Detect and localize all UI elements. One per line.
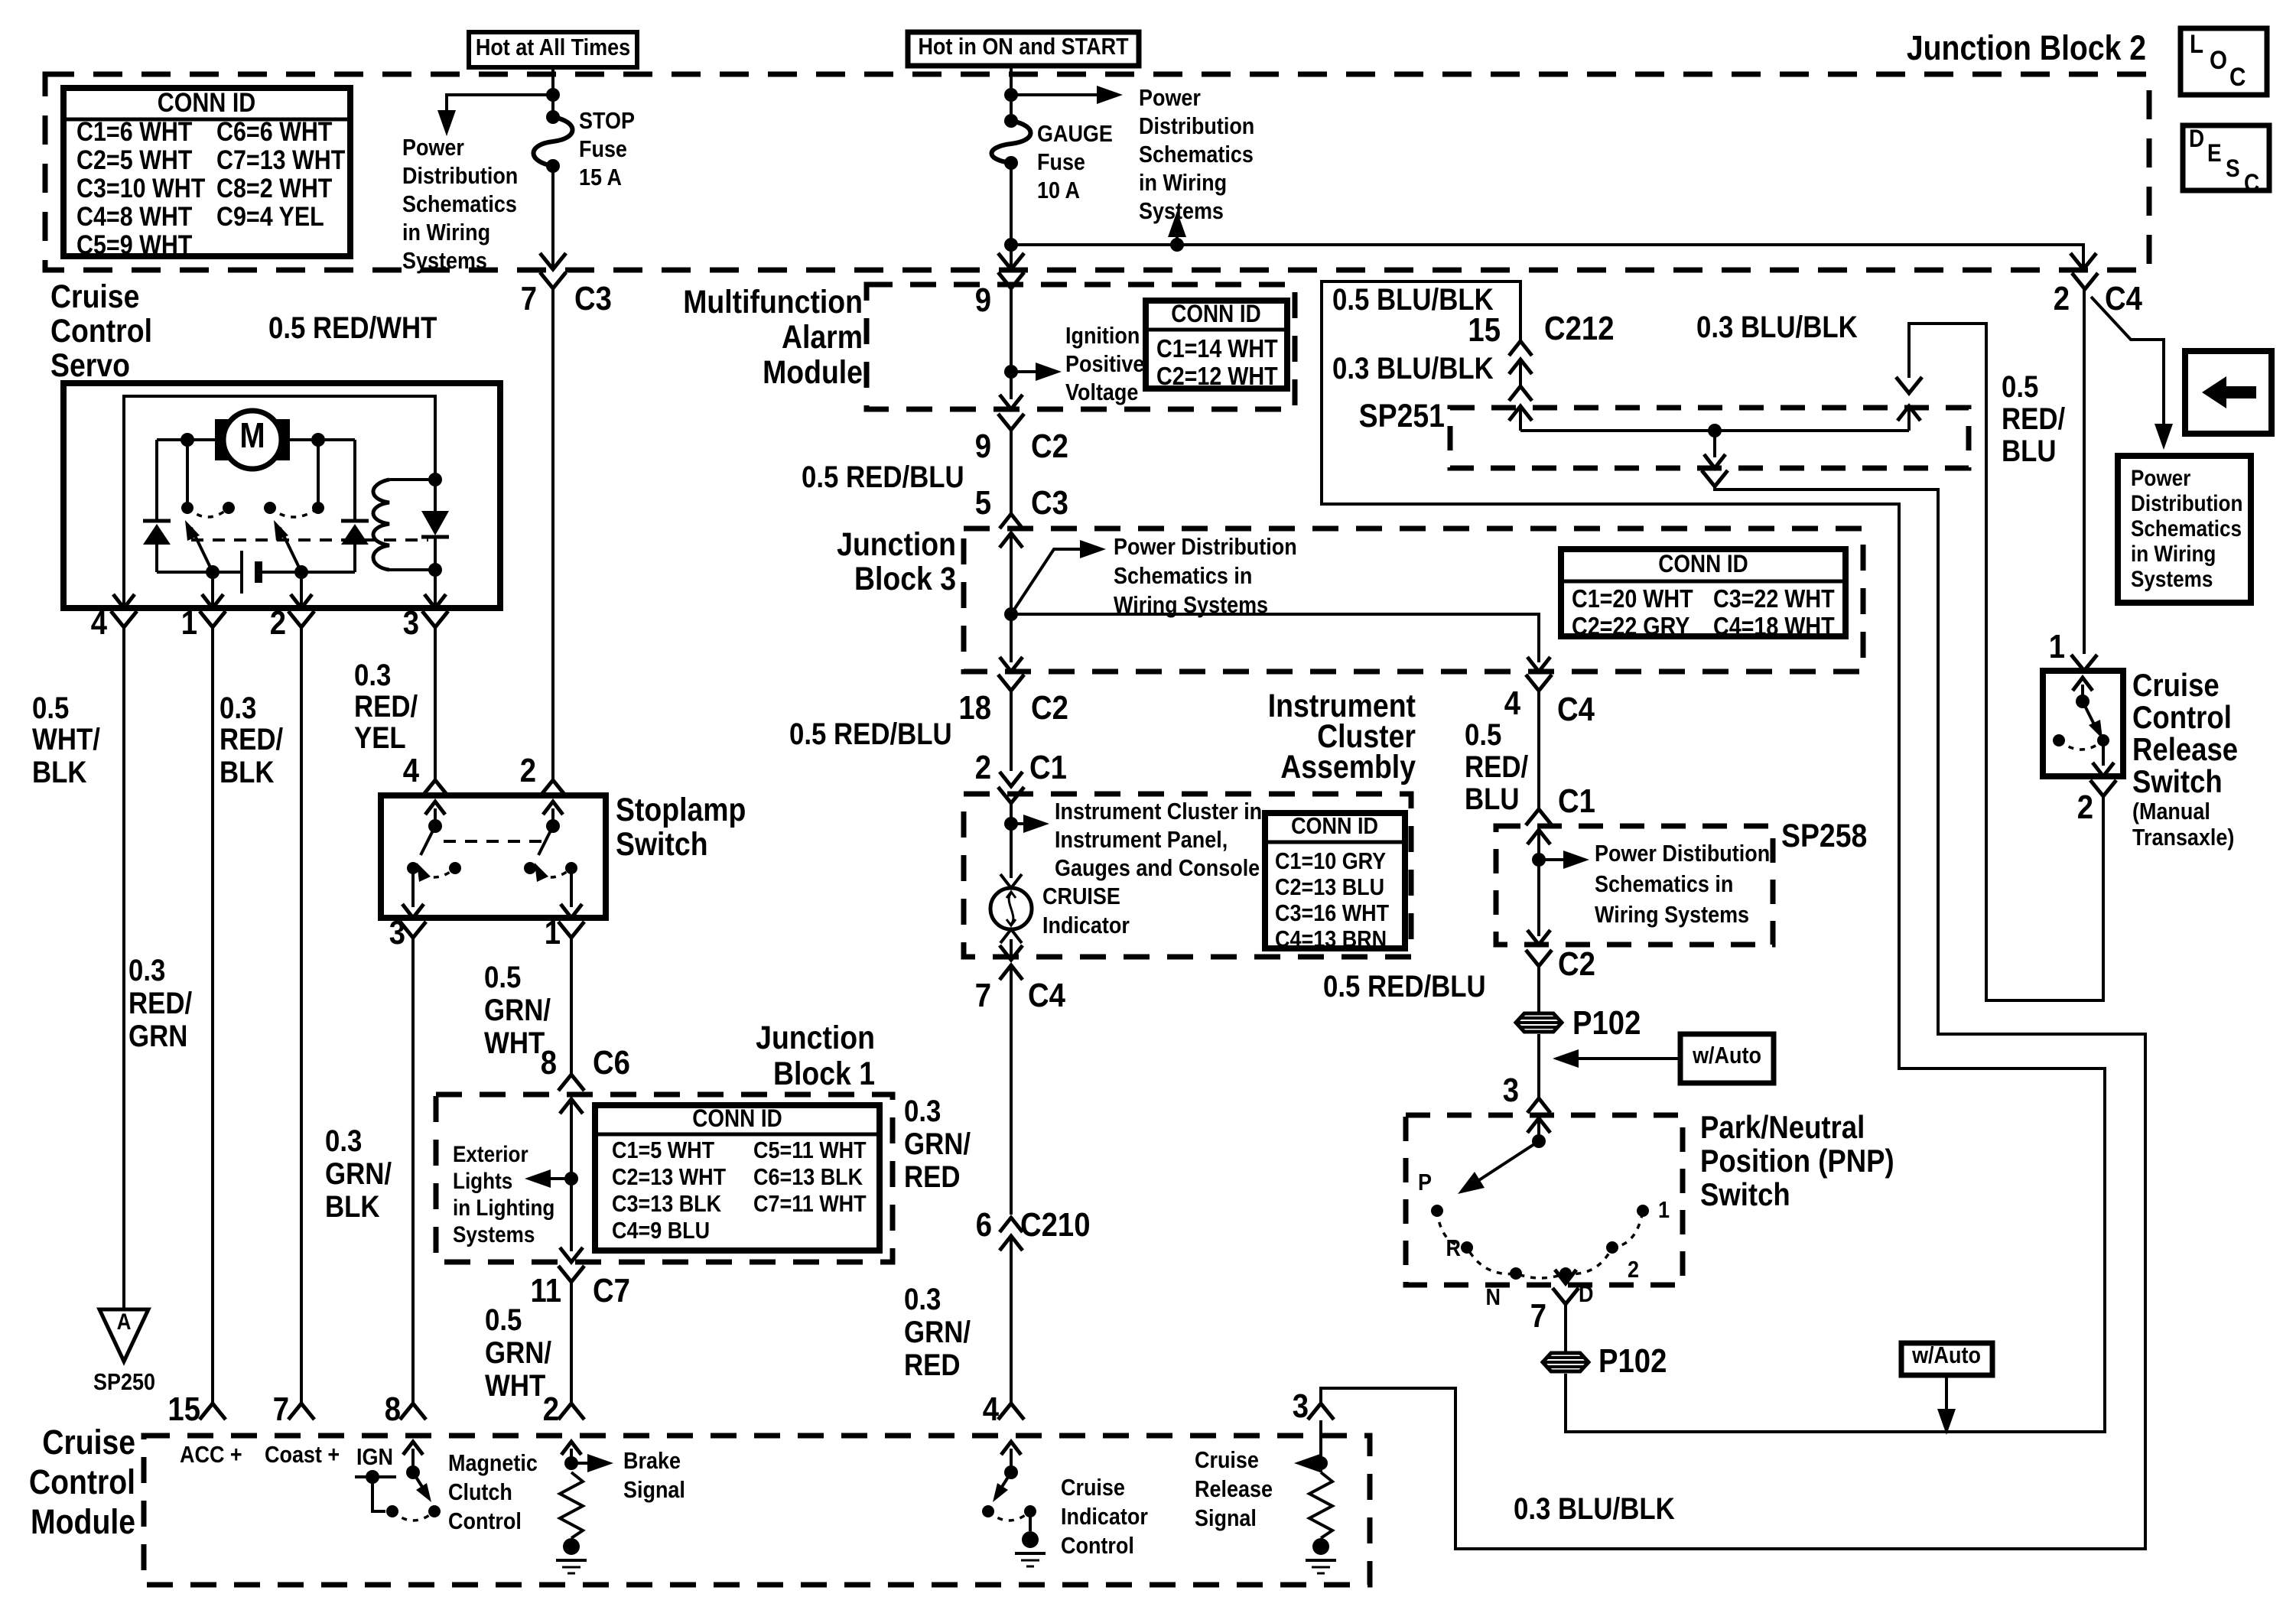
svg-text:Exterior: Exterior [453, 1141, 528, 1166]
svg-text:C3=10 WHT: C3=10 WHT [76, 173, 205, 203]
svg-text:Ignition: Ignition [1065, 323, 1140, 349]
svg-text:0.5 RED/WHT: 0.5 RED/WHT [268, 311, 437, 345]
svg-text:Cruise: Cruise [42, 1423, 135, 1461]
svg-text:P102: P102 [1598, 1342, 1667, 1380]
svg-text:C9=4 YEL: C9=4 YEL [216, 201, 324, 231]
svg-text:Power: Power [1139, 85, 1201, 111]
label Junction Block 2 [1907, 28, 2146, 67]
wire label 0.5 RED/BLU (release) [2002, 369, 2066, 468]
connector 11 C7 [531, 1266, 630, 1309]
svg-text:Distribution: Distribution [402, 163, 518, 189]
wire label 0.3 BLU/BLK (right) [1696, 310, 1858, 344]
PNP contact 1 [1637, 1197, 1670, 1223]
svg-text:2: 2 [2077, 789, 2093, 826]
wire JB3 splice to C4 leg [1011, 614, 1539, 662]
svg-text:7: 7 [1530, 1297, 1546, 1335]
svg-text:3: 3 [389, 914, 405, 951]
wire label 0.5 RED/BLU (JB3 to cluster) [789, 717, 952, 751]
svg-text:Cruise: Cruise [2132, 668, 2220, 704]
svg-text:C6: C6 [593, 1044, 630, 1081]
svg-text:Indicator: Indicator [1042, 912, 1130, 938]
branch arrow to power distribution note (JB3) [1011, 540, 1106, 614]
PNP contact P [1418, 1169, 1443, 1217]
svg-text:C7: C7 [593, 1272, 630, 1309]
wire through JB1 [560, 1099, 583, 1251]
svg-text:C7=11 WHT: C7=11 WHT [753, 1191, 867, 1217]
label SP251 [1359, 398, 1445, 434]
connector 7 female below PNP [1553, 1288, 1579, 1352]
stoplamp right contact set [524, 802, 582, 918]
svg-text:C212: C212 [1544, 310, 1614, 347]
wire servo pin2 to module 7 [300, 627, 303, 1403]
arrow D exit [1555, 1270, 1576, 1283]
wire label 0.3 RED/BLK [220, 691, 284, 789]
junction dot on STOP feed [546, 88, 560, 102]
brake signal resistor [556, 1442, 613, 1573]
junction block 3 dashed box [964, 529, 1863, 672]
label Junction Block 1 [756, 1020, 875, 1092]
svg-text:GRN/: GRN/ [325, 1156, 392, 1191]
junction dot on GAUGE feed [1004, 88, 1018, 102]
svg-text:w/Auto: w/Auto [1911, 1342, 1981, 1368]
svg-text:C8=2 WHT: C8=2 WHT [216, 173, 332, 203]
label CRUISE Indicator [1042, 883, 1130, 938]
svg-text:C4: C4 [1028, 977, 1065, 1014]
w/Auto tag (PNP column) [1553, 1034, 1774, 1083]
svg-text:4: 4 [983, 1390, 999, 1428]
label pin 2 (release) [2077, 789, 2093, 826]
connector into SP251 left [1509, 386, 1532, 431]
connector 9 C2 female below module [998, 414, 1024, 514]
inline connector P102 (PNP to module) [1543, 1342, 1667, 1380]
diode right (servo) [341, 521, 369, 572]
connector 7 C3 male half [540, 253, 566, 269]
label IGN [356, 1444, 393, 1470]
note Instrument Cluster in Instrument Panel Gauges and Console [1055, 798, 1262, 881]
svg-text:Fuse: Fuse [1037, 149, 1085, 175]
svg-text:2: 2 [520, 752, 536, 789]
connector 2 C1 female inside cluster [998, 787, 1024, 878]
svg-text:RED: RED [904, 1348, 960, 1382]
svg-text:7: 7 [975, 977, 991, 1014]
wire label 0.5 RED/BLU (module to JB3) [802, 460, 964, 494]
svg-text:ACC +: ACC + [180, 1442, 242, 1468]
wire label 0.3 GRN/BLK [325, 1124, 392, 1224]
svg-text:Power: Power [2131, 465, 2190, 490]
splice SP250 triangle [93, 1309, 155, 1395]
svg-text:Servo: Servo [50, 347, 130, 384]
servo coil [373, 473, 442, 577]
svg-text:4: 4 [91, 604, 107, 642]
svg-text:Hot at All Times: Hot at All Times [476, 34, 630, 60]
arrow into SP258 [1527, 830, 1550, 936]
instrument cluster dashed box [964, 794, 1411, 957]
svg-text:Systems: Systems [453, 1221, 535, 1247]
servo pin labels [91, 604, 419, 642]
svg-text:5: 5 [975, 484, 991, 522]
svg-text:P: P [1418, 1169, 1432, 1195]
svg-text:Module: Module [31, 1502, 135, 1540]
svg-text:0.5: 0.5 [1465, 717, 1501, 752]
svg-text:Schematics in: Schematics in [1595, 871, 1733, 897]
servo dashed control line [191, 538, 428, 542]
svg-text:0.3: 0.3 [904, 1282, 941, 1316]
wire servo pin3 to stoplamp 4 [434, 627, 437, 780]
svg-text:STOP: STOP [579, 108, 635, 134]
svg-text:C4=18 WHT: C4=18 WHT [1713, 612, 1835, 640]
svg-text:C: C [2244, 170, 2259, 197]
label 5 C3 [975, 484, 1068, 522]
svg-text:Alarm: Alarm [782, 319, 863, 356]
svg-text:Brake: Brake [623, 1448, 681, 1474]
multifunction alarm module dashed box [867, 285, 1295, 409]
svg-text:9: 9 [975, 428, 991, 465]
svg-text:Control: Control [448, 1508, 522, 1534]
svg-text:O: O [2210, 45, 2227, 74]
arrow JB3 C4 exit [1527, 657, 1550, 672]
junction dot cluster note tap [1004, 817, 1018, 831]
fat arrow box (left pointer) [2185, 351, 2272, 434]
wire C4 to release switch [2083, 289, 2086, 654]
svg-text:9: 9 [975, 281, 991, 319]
svg-text:Systems: Systems [1139, 198, 1224, 224]
junction block 1 dashed box [436, 1094, 893, 1262]
wire stoplamp 1 to C6 [570, 938, 573, 1075]
fuse GAUGE Fuse 10 A [992, 114, 1113, 203]
connector 6 C210 [976, 1206, 1091, 1251]
svg-text:0.3 BLU/BLK: 0.3 BLU/BLK [1332, 351, 1494, 385]
cruise control servo box [63, 383, 500, 608]
label Junction Block 3 [837, 526, 956, 597]
svg-text:3: 3 [1503, 1072, 1519, 1109]
svg-text:Control: Control [2132, 700, 2232, 736]
branch to power distribution box (right) [2091, 297, 2173, 450]
PNP contact 2 [1606, 1241, 1639, 1283]
label pin 9 [975, 281, 991, 319]
svg-text:Assembly: Assembly [1280, 749, 1416, 785]
module pin 8 [385, 1390, 426, 1428]
svg-text:11: 11 [531, 1272, 561, 1309]
svg-text:Multifunction: Multifunction [683, 284, 863, 320]
connector 15 C212 [1509, 341, 1532, 386]
svg-text:15 A: 15 A [579, 164, 622, 190]
svg-text:D: D [1579, 1281, 1593, 1307]
module pin 15 [167, 1390, 242, 1469]
svg-text:C5=11 WHT: C5=11 WHT [753, 1137, 867, 1163]
svg-text:C2=13 WHT: C2=13 WHT [612, 1164, 726, 1190]
release switch contacts [2053, 678, 2114, 776]
svg-text:C1=14 WHT: C1=14 WHT [1156, 334, 1278, 363]
svg-text:Park/Neutral: Park/Neutral [1700, 1110, 1865, 1146]
svg-text:C2=12 WHT: C2=12 WHT [1156, 362, 1278, 390]
svg-text:C4=13 BRN: C4=13 BRN [1275, 926, 1387, 952]
svg-text:C4: C4 [2105, 280, 2142, 317]
svg-text:Distribution: Distribution [1139, 113, 1254, 139]
connector table CONN ID (JB3) [1561, 549, 1846, 640]
svg-text:D: D [2189, 125, 2204, 152]
svg-text:N: N [1486, 1284, 1501, 1310]
wire SP251 bus [1520, 429, 1909, 432]
svg-text:R: R [1446, 1235, 1461, 1261]
note Ignition Positive Voltage [1065, 323, 1144, 405]
svg-text:Stoplamp: Stoplamp [616, 792, 746, 828]
svg-text:2: 2 [270, 604, 286, 642]
junction dot GAUGE splice [1004, 238, 1018, 252]
svg-text:Transaxle): Transaxle) [2132, 825, 2234, 851]
connector 2 C4 male [2070, 253, 2096, 269]
junction dot JB3 splice [1004, 607, 1018, 621]
svg-text:Distribution: Distribution [2131, 490, 2242, 516]
svg-text:C2=22 GRY: C2=22 GRY [1572, 612, 1690, 640]
wire label 0.3 GRN/RED (upper) [904, 1094, 971, 1194]
svg-text:6: 6 [976, 1206, 992, 1244]
svg-text:C2: C2 [1031, 689, 1068, 727]
label Instrument Cluster Assembly [1268, 688, 1416, 785]
svg-text:0.5 RED/BLU: 0.5 RED/BLU [789, 717, 952, 751]
svg-text:3: 3 [1293, 1387, 1309, 1425]
svg-text:BLK: BLK [220, 755, 275, 789]
svg-text:10 A: 10 A [1037, 177, 1080, 203]
svg-text:Fuse: Fuse [579, 136, 627, 162]
svg-text:C1: C1 [1029, 749, 1067, 786]
svg-text:RED: RED [904, 1160, 960, 1194]
svg-text:C4: C4 [1557, 691, 1595, 728]
svg-text:Switch: Switch [616, 826, 708, 863]
svg-text:CONN ID: CONN ID [1658, 551, 1748, 577]
svg-text:SP250: SP250 [93, 1369, 155, 1395]
wire servo pin1 to module 15 [211, 627, 214, 1403]
wire P102 to PNP [1537, 1034, 1540, 1098]
label pin 3 [1503, 1072, 1519, 1109]
svg-text:Switch: Switch [2132, 764, 2223, 800]
servo motor leads [157, 433, 355, 521]
splice SP251 dashed box [1450, 408, 1969, 468]
connector cluster C4 exit pair [1000, 945, 1023, 980]
svg-text:Systems: Systems [402, 248, 487, 274]
label 4 C4 [1504, 685, 1595, 728]
svg-text:15: 15 [1468, 311, 1501, 349]
svg-text:Switch: Switch [1700, 1177, 1790, 1213]
connector 2 C1 arrow into cluster [1000, 772, 1023, 786]
wire JB1 to module 2 [570, 1282, 573, 1403]
wire GAUGE fuse down to splice [1010, 163, 1013, 269]
label 7 C3 [521, 280, 612, 317]
svg-text:RED/: RED/ [1465, 750, 1529, 784]
note Exterior Lights in Lighting Systems [453, 1141, 554, 1247]
svg-text:Cruise: Cruise [1195, 1447, 1259, 1473]
label C2 [1558, 945, 1595, 983]
svg-text:Block 1: Block 1 [773, 1055, 875, 1092]
svg-text:3: 3 [403, 604, 419, 642]
servo motor M [215, 411, 290, 469]
module pin 3 [1293, 1387, 1334, 1425]
arrow out of module bottom [1000, 395, 1023, 409]
wire label 0.5 GRN/WHT (lower) [485, 1303, 552, 1403]
svg-text:Cruise: Cruise [1061, 1475, 1125, 1501]
note Power Distribution Schematics in Wiring Systems (right) [1139, 85, 1254, 224]
wire label 0.5 RED/WHT [268, 311, 437, 345]
svg-text:SP251: SP251 [1359, 398, 1445, 434]
svg-text:C1: C1 [1558, 782, 1595, 820]
svg-text:GRN/: GRN/ [904, 1127, 971, 1161]
svg-text:1: 1 [545, 914, 561, 951]
svg-text:0.3: 0.3 [128, 953, 165, 987]
svg-text:Coast +: Coast + [265, 1442, 340, 1468]
svg-text:BLK: BLK [325, 1189, 380, 1224]
cruise indicator control switch [982, 1442, 1046, 1566]
svg-text:w/Auto: w/Auto [1692, 1042, 1761, 1068]
wire label 0.5 GRN/WHT (upper) [484, 960, 551, 1060]
svg-text:Schematics: Schematics [1139, 141, 1254, 168]
arrow JB3 C2 exit [1000, 657, 1023, 672]
svg-text:C2: C2 [1031, 428, 1068, 465]
svg-text:0.3: 0.3 [325, 1124, 362, 1158]
svg-text:C2=5 WHT: C2=5 WHT [76, 145, 192, 174]
svg-text:C1=5 WHT: C1=5 WHT [612, 1137, 714, 1163]
w/Auto tag (lower) [1901, 1342, 1992, 1435]
svg-text:0.5 RED/BLU: 0.5 RED/BLU [802, 460, 964, 494]
note Brake Signal [623, 1448, 685, 1503]
svg-text:8: 8 [385, 1390, 401, 1428]
box DESC [2183, 125, 2269, 197]
svg-text:RED/: RED/ [128, 986, 193, 1020]
wire label 0.5 RED/BLU (to P102) [1323, 969, 1486, 1003]
power distribution reference box (right) [2118, 456, 2251, 603]
svg-text:Junction Block 2: Junction Block 2 [1907, 28, 2146, 67]
svg-text:Cruise: Cruise [50, 278, 139, 315]
wire label 0.3 GRN/RED (lower) [904, 1282, 971, 1382]
label 2 C4 [2054, 280, 2142, 317]
svg-text:C4=8 WHT: C4=8 WHT [76, 201, 192, 231]
svg-text:Signal: Signal [1195, 1505, 1257, 1531]
label Cruise Control Module [29, 1423, 135, 1540]
arrow instrument cluster note [1011, 815, 1049, 833]
svg-text:BLK: BLK [32, 755, 87, 789]
svg-text:Junction: Junction [837, 526, 956, 563]
module pin 7 [265, 1390, 340, 1469]
label Multifunction Alarm Module [683, 284, 863, 391]
junction dot SP258 [1532, 853, 1546, 867]
svg-text:Power: Power [402, 135, 464, 161]
svg-text:0.3: 0.3 [354, 658, 391, 692]
power label box Hot at All Times [469, 32, 637, 67]
junction block 2 dashed box (JB2) [45, 74, 2149, 270]
servo inner left rail [124, 396, 435, 608]
svg-text:A: A [117, 1309, 132, 1334]
svg-text:CONN ID: CONN ID [1291, 813, 1378, 839]
svg-text:0.5: 0.5 [2002, 369, 2038, 404]
label 2 C1 [975, 749, 1067, 786]
wire label 0.3 RED/GRN [128, 953, 193, 1053]
svg-text:8: 8 [541, 1044, 557, 1081]
svg-text:Block 3: Block 3 [854, 561, 956, 597]
cruise control module dashed box [144, 1436, 1370, 1585]
svg-text:GRN/: GRN/ [904, 1315, 971, 1349]
svg-text:GAUGE: GAUGE [1037, 121, 1113, 147]
note Power Distibution Schematics in Wiring Systems (SP258) [1595, 841, 1770, 928]
svg-text:C3=13 BLK: C3=13 BLK [612, 1191, 721, 1217]
svg-text:Lights: Lights [453, 1168, 512, 1193]
servo pin wires down [213, 570, 435, 608]
connector table CONN ID (JB2) [63, 87, 350, 259]
wire STOP fuse to C3 [551, 166, 554, 269]
svg-text:0.5: 0.5 [32, 691, 69, 725]
svg-text:C1=20 WHT: C1=20 WHT [1572, 584, 1693, 613]
svg-text:7: 7 [273, 1390, 289, 1428]
connector 1 female above release switch [2071, 655, 2097, 671]
connector C1 female (SP258 feed) [1526, 809, 1552, 825]
connector 18 C2 female [998, 675, 1024, 771]
svg-text:WHT/: WHT/ [32, 722, 100, 756]
svg-text:C6=6 WHT: C6=6 WHT [216, 116, 332, 146]
svg-text:(Manual: (Manual [2132, 798, 2210, 825]
svg-text:GRN: GRN [128, 1019, 187, 1053]
branch arrow to Power Distribution (left) [437, 95, 553, 136]
svg-text:Control: Control [50, 313, 152, 350]
servo switch left [181, 502, 235, 579]
label 9 C2 [975, 428, 1068, 465]
PNP contact R [1446, 1235, 1473, 1261]
cruise release signal resistor [1294, 1420, 1336, 1573]
svg-text:YEL: YEL [354, 720, 406, 755]
magnetic clutch switch [355, 1442, 441, 1521]
connector 2 into stoplamp [520, 752, 566, 796]
servo pin exit arrows [113, 594, 446, 608]
wire label 0.5 WHT/BLK [32, 691, 100, 789]
wire label 0.5 RED/BLU (three line) [1465, 717, 1529, 816]
connector table CONN ID (multifunction) [1146, 301, 1287, 390]
svg-text:WHT: WHT [484, 1026, 545, 1060]
wire label 0.3 BLU/BLK (left) [1332, 351, 1494, 385]
svg-text:Hot in ON and START: Hot in ON and START [918, 34, 1128, 60]
svg-text:C4=9 BLU: C4=9 BLU [612, 1218, 710, 1244]
connector 5 C3 male arrow into JB3 [1000, 533, 1023, 662]
svg-text:Systems: Systems [2131, 566, 2213, 591]
svg-text:2: 2 [975, 749, 991, 786]
svg-text:Control: Control [29, 1462, 135, 1501]
connector 2 C4 female [2072, 273, 2098, 289]
svg-text:1: 1 [181, 604, 197, 642]
arrow exterior lights [525, 1169, 571, 1188]
svg-text:in Wiring: in Wiring [1139, 170, 1227, 196]
svg-text:in Wiring: in Wiring [2131, 541, 2216, 566]
inline connector P102 (cluster to PNP) [1516, 1004, 1641, 1042]
svg-text:Module: Module [763, 354, 863, 391]
power label box Hot in ON and START [908, 32, 1139, 66]
svg-text:GRN/: GRN/ [484, 993, 551, 1027]
svg-text:in Wiring: in Wiring [402, 220, 490, 246]
svg-text:Signal: Signal [623, 1477, 685, 1503]
svg-text:0.3: 0.3 [220, 691, 256, 725]
svg-text:0.3 BLU/BLK: 0.3 BLU/BLK [1514, 1491, 1675, 1526]
svg-text:E: E [2207, 140, 2222, 167]
stoplamp left contact set [402, 802, 461, 918]
label 15 C212 [1468, 310, 1614, 349]
svg-text:C3=16 WHT: C3=16 WHT [1275, 900, 1389, 926]
svg-text:C1=6 WHT: C1=6 WHT [76, 116, 192, 146]
svg-text:C2=13 BLU: C2=13 BLU [1275, 874, 1384, 900]
svg-text:7: 7 [521, 280, 537, 317]
svg-text:0.3 BLU/BLK: 0.3 BLU/BLK [1696, 310, 1858, 344]
svg-text:Magnetic: Magnetic [448, 1450, 538, 1476]
note Cruise Indicator Control [1061, 1475, 1148, 1559]
label SP258 [1781, 818, 1867, 854]
svg-text:GRN/: GRN/ [485, 1335, 552, 1370]
arrow SP251 down exit [1704, 431, 1725, 468]
svg-text:BLU: BLU [1465, 782, 1520, 816]
svg-text:C1=10 GRY: C1=10 GRY [1275, 848, 1386, 874]
svg-text:Power Distibution: Power Distibution [1595, 841, 1770, 867]
